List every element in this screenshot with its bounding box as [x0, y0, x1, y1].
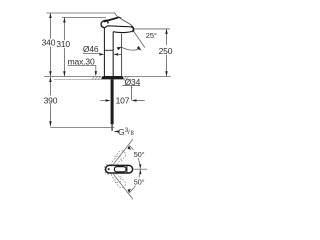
- svg-text:Ø34: Ø34: [125, 77, 141, 87]
- svg-text:310: 310: [56, 39, 70, 49]
- svg-text:25°: 25°: [146, 31, 157, 40]
- svg-text:Ø46: Ø46: [83, 44, 99, 54]
- svg-text:390: 390: [44, 95, 58, 105]
- svg-text:340: 340: [42, 38, 56, 48]
- svg-text:max.30: max.30: [68, 56, 95, 66]
- svg-text:G: G: [118, 127, 124, 137]
- svg-text:250: 250: [159, 46, 173, 56]
- svg-text:50°: 50°: [134, 150, 145, 159]
- svg-text:50°: 50°: [134, 177, 145, 186]
- svg-text:107: 107: [116, 96, 130, 106]
